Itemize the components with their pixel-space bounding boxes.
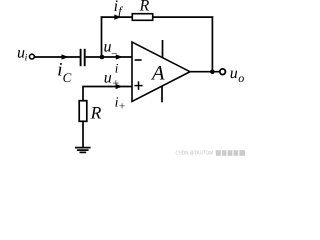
current arrow i_- [116, 54, 123, 59]
svg-text:C: C [63, 70, 72, 85]
node u_minus junction [100, 55, 105, 60]
output terminal u_o [220, 69, 226, 75]
current arrow i_C [62, 54, 69, 59]
wire output [190, 71, 220, 73]
ground [75, 147, 91, 149]
op-amp plus input marking [134, 85, 142, 87]
resistor R feedback [132, 14, 152, 21]
wire bias to ground [82, 121, 84, 147]
svg-text:u: u [104, 69, 112, 86]
current arrow i_f [114, 15, 121, 20]
capacitor C [80, 49, 82, 66]
op-amp minus input marking [135, 59, 142, 61]
svg-text:i: i [115, 61, 119, 76]
wire feedback riser left [101, 16, 103, 57]
svg-text:A: A [150, 63, 165, 85]
svg-text:o: o [238, 71, 244, 85]
wire bias riser [82, 86, 84, 101]
svg-text:+: + [112, 76, 120, 90]
power stub bottom [161, 86, 163, 102]
wire feedback top left segment [101, 16, 132, 18]
svg-text:+: + [118, 101, 125, 113]
op-amp U1 triangle [132, 42, 190, 102]
svg-text:u: u [230, 65, 238, 82]
wire feedback top right segment [153, 16, 214, 18]
svg-text:f: f [118, 4, 123, 18]
svg-text:R: R [90, 102, 102, 122]
svg-text:CSDN @TAUTOM: CSDN @TAUTOM [176, 149, 214, 156]
wire feedback riser right [211, 16, 213, 71]
resistor R bias [79, 101, 87, 122]
wire non-inverting input horizontal [83, 86, 133, 88]
current arrow i_+ [116, 84, 123, 89]
wire input horizontal [34, 56, 80, 58]
power stub top [162, 40, 164, 58]
input terminal u_i [30, 54, 35, 59]
wire capacitor to op-amp inverting input [86, 56, 133, 58]
svg-text:R: R [139, 0, 150, 15]
node output junction [210, 69, 215, 74]
svg-text:i: i [25, 53, 28, 64]
